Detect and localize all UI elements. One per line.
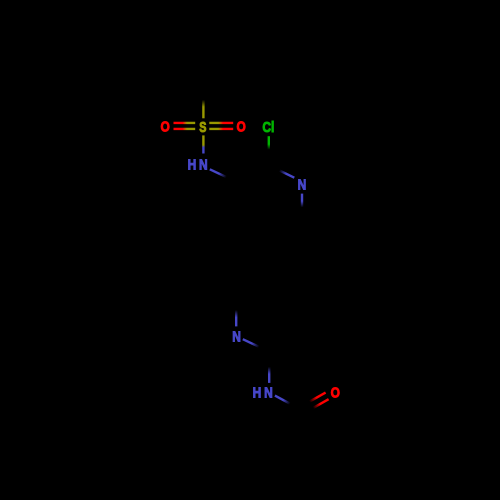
svg-text:N: N (232, 328, 241, 344)
svg-text:S: S (199, 118, 207, 135)
svg-text:N: N (199, 156, 208, 172)
wire Cl-C2 (268, 136, 270, 149)
svg-text:O: O (161, 119, 170, 135)
wire S=O left lower line (174, 128, 196, 130)
wire S=O right upper line (209, 122, 233, 124)
wire C=O upper line (310, 393, 326, 402)
svg-text:N: N (264, 384, 273, 400)
wire C=O lower line (313, 399, 328, 408)
wire HN-C3 (210, 169, 227, 177)
wire N2-C2' (243, 339, 259, 347)
wire S=O left upper line (174, 122, 196, 124)
svg-text:O: O (236, 119, 245, 135)
wire NH-C2' (268, 367, 270, 383)
wire N1-C2 (279, 170, 294, 177)
svg-text:H: H (188, 156, 197, 172)
svg-text:Cl: Cl (262, 119, 274, 135)
wire S-N (202, 135, 204, 153)
wire S=O right lower line (209, 128, 233, 130)
wire NH-C(=O) (275, 396, 290, 404)
wire N2-C up (235, 310, 237, 326)
svg-text:N: N (298, 176, 307, 192)
svg-text:O: O (331, 385, 340, 401)
wire S-CH3 (202, 100, 204, 119)
svg-text:H: H (253, 384, 262, 400)
wire N1-C6 (301, 194, 303, 208)
